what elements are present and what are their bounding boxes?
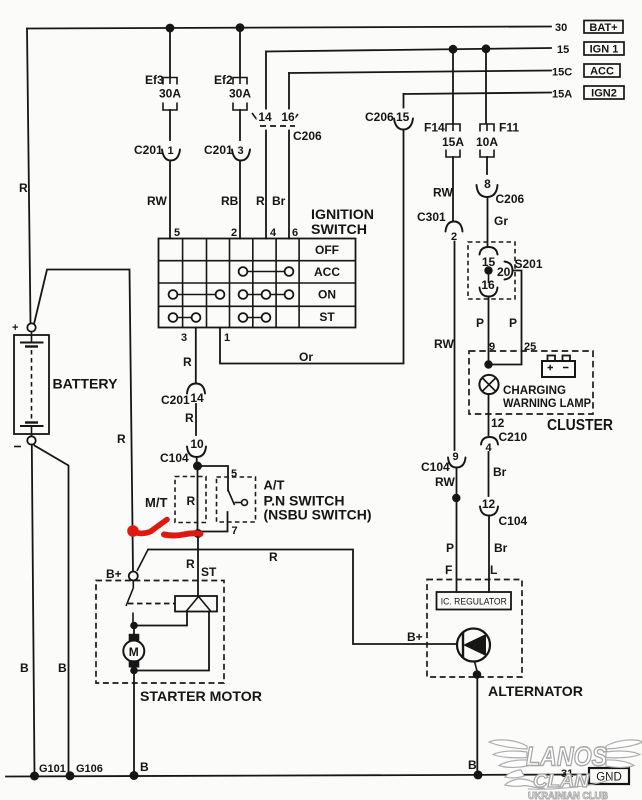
svg-text:G106: G106 bbox=[76, 763, 103, 775]
left wing bbox=[489, 740, 527, 749]
node alternator ground bbox=[474, 770, 483, 779]
wire RW C301 to C104 bbox=[454, 242, 456, 451]
starter contact upper lead bbox=[132, 581, 134, 589]
starter motor dashed box bbox=[96, 581, 224, 684]
svg-text:5: 5 bbox=[174, 227, 180, 239]
svg-text:BATTERY: BATTERY bbox=[53, 376, 119, 392]
svg-text:R: R bbox=[19, 181, 28, 195]
svg-text:15A: 15A bbox=[552, 89, 572, 101]
connector C210 pin 4 bbox=[481, 437, 498, 445]
alternator diode symbol bbox=[457, 629, 490, 662]
motor brush bottom bbox=[129, 660, 140, 667]
svg-text:RB: RB bbox=[221, 194, 239, 208]
wire Ef3 to C201 bbox=[169, 110, 171, 140]
svg-text:Gr: Gr bbox=[494, 214, 508, 228]
wire battery negative to G101 bbox=[32, 445, 35, 776]
solenoid plunger V bbox=[186, 597, 211, 612]
charging warning lamp bbox=[479, 375, 498, 394]
starter contact lower lead bbox=[132, 613, 134, 623]
svg-text:C206: C206 bbox=[496, 192, 525, 206]
node junction NSBU top bbox=[193, 462, 202, 471]
wire Or from IGN2 bus to switch pin 1 bbox=[220, 94, 404, 364]
svg-text:IC. REGULATOR: IC. REGULATOR bbox=[441, 597, 507, 608]
svg-text:2: 2 bbox=[231, 227, 237, 239]
swoosh underline bbox=[528, 779, 612, 789]
svg-text:1: 1 bbox=[167, 145, 173, 157]
svg-text:S201: S201 bbox=[515, 257, 543, 271]
node junction Ef3 feed on 30 bus bbox=[166, 24, 175, 33]
svg-text:ALTERNATOR: ALTERNATOR bbox=[488, 683, 583, 699]
svg-text:B: B bbox=[58, 661, 67, 675]
battery dashed center bbox=[31, 350, 33, 419]
fuse F11 10A bbox=[485, 49, 487, 124]
wire R from IGN1 bus to switch pin 4 bbox=[265, 52, 267, 239]
node junction F14 feed on 15 bus bbox=[449, 45, 458, 54]
node starter motor bottom bbox=[130, 667, 138, 675]
wire RW to ignition switch pin 5 bbox=[169, 161, 171, 239]
mini battery icon bbox=[542, 356, 575, 378]
svg-text:C104: C104 bbox=[160, 451, 189, 465]
motor M bbox=[123, 641, 144, 662]
svg-text:5: 5 bbox=[231, 468, 237, 480]
wire A/T branch to pin 5 bbox=[198, 466, 229, 491]
svg-text:Ef3: Ef3 bbox=[145, 73, 164, 87]
svg-text:L: L bbox=[490, 563, 497, 577]
svg-text:R: R bbox=[187, 494, 196, 508]
wire R pin14 to C104 bbox=[195, 404, 197, 435]
svg-text:30A: 30A bbox=[229, 87, 251, 101]
svg-text:Br: Br bbox=[272, 194, 286, 208]
svg-text:M: M bbox=[129, 645, 139, 659]
wire RW to splice bbox=[456, 468, 458, 495]
svg-text:R: R bbox=[269, 550, 278, 564]
wire R/ST to starter solenoid bbox=[197, 534, 199, 597]
wire solenoid right terminal bbox=[134, 612, 209, 671]
svg-text:7: 7 bbox=[232, 525, 238, 537]
svg-text:R: R bbox=[186, 557, 195, 571]
battery positive terminal bbox=[27, 323, 35, 331]
svg-text:1: 1 bbox=[224, 332, 230, 344]
wire lamp to C210 bbox=[488, 394, 490, 435]
wire Br to regulator L bbox=[488, 516, 490, 593]
svg-text:M/T: M/T bbox=[145, 495, 167, 510]
ON row contacts bbox=[169, 290, 294, 299]
svg-text:R: R bbox=[185, 411, 194, 425]
svg-text:IGN2: IGN2 bbox=[591, 88, 617, 100]
wire diode to ground node bbox=[475, 662, 478, 672]
connector C201 pin 14 bbox=[187, 384, 205, 394]
svg-text:G101: G101 bbox=[39, 763, 66, 775]
svg-text:P: P bbox=[476, 316, 484, 330]
svg-text:ON: ON bbox=[318, 288, 336, 302]
ground G101 bbox=[30, 772, 39, 781]
svg-text:Br: Br bbox=[493, 465, 507, 479]
motor brush top bbox=[129, 634, 140, 641]
svg-text:C104: C104 bbox=[421, 460, 450, 474]
ground G106 bbox=[66, 771, 75, 780]
svg-text:14: 14 bbox=[258, 110, 272, 124]
svg-text:R: R bbox=[183, 355, 192, 369]
svg-text:B: B bbox=[140, 760, 149, 774]
battery bbox=[12, 322, 49, 447]
svg-text:UKRAINIAN CLUB: UKRAINIAN CLUB bbox=[528, 791, 608, 800]
ST row contacts bbox=[169, 313, 271, 322]
svg-text:30A: 30A bbox=[159, 87, 181, 101]
svg-text:6: 6 bbox=[292, 227, 298, 239]
fuse F14 15A bbox=[452, 49, 454, 123]
ground bus bottom bbox=[6, 775, 589, 777]
svg-text:F11: F11 bbox=[499, 121, 519, 135]
svg-text:+: + bbox=[12, 322, 18, 334]
node starter motor top bbox=[130, 622, 138, 630]
svg-text:IGN 1: IGN 1 bbox=[590, 44, 619, 56]
svg-text:P: P bbox=[509, 316, 517, 330]
svg-text:4: 4 bbox=[270, 227, 277, 239]
svg-text:8: 8 bbox=[484, 177, 491, 191]
svg-text:Br: Br bbox=[494, 541, 508, 555]
svg-text:CHARGING: CHARGING bbox=[503, 383, 566, 397]
wire P S201-16 to cluster bbox=[488, 297, 490, 365]
ACC row contacts bbox=[239, 267, 294, 276]
svg-text:CLUSTER: CLUSTER bbox=[547, 417, 613, 434]
mechanical linkage dashed bbox=[128, 603, 175, 605]
wire P S201-20 to cluster 25 bbox=[513, 271, 522, 365]
svg-text:15C: 15C bbox=[552, 67, 572, 79]
wire P to regulator F bbox=[456, 498, 458, 592]
wire B alternator to ground bbox=[476, 675, 478, 776]
svg-text:ACC: ACC bbox=[590, 66, 614, 78]
svg-text:ACC: ACC bbox=[314, 265, 340, 279]
svg-text:C206: C206 bbox=[293, 129, 322, 143]
svg-text:B: B bbox=[20, 661, 29, 675]
svg-text:C210: C210 bbox=[499, 430, 528, 444]
wire Br C210 to C104 bbox=[488, 452, 490, 496]
wire C104-10 to junction bbox=[196, 457, 198, 462]
wire battery feed R (left vertical) bbox=[27, 29, 31, 325]
node splice on RW/P wire bbox=[452, 494, 460, 502]
connector S201 pin 15 bbox=[480, 247, 498, 255]
svg-text:C201: C201 bbox=[161, 393, 190, 407]
node lamp top junction bbox=[489, 364, 522, 366]
node starter ground bbox=[130, 771, 139, 780]
wire 15C bus (ACC) bbox=[289, 71, 551, 74]
svg-text:3: 3 bbox=[181, 332, 187, 344]
wire F11 to C206-8 bbox=[486, 157, 488, 174]
svg-text:C201: C201 bbox=[204, 143, 233, 157]
wire Ef2 to C201 bbox=[239, 110, 241, 140]
solenoid box bbox=[175, 596, 217, 612]
svg-text:WARNING LAMP: WARNING LAMP bbox=[503, 396, 591, 410]
watermark logo Lanos Clan bbox=[489, 740, 642, 789]
splice S201 dashed box bbox=[468, 242, 515, 299]
svg-text:Or: Or bbox=[299, 350, 313, 364]
starter switch blade bbox=[126, 588, 133, 606]
battery negative terminal bbox=[27, 436, 35, 444]
svg-text:Ef2: Ef2 bbox=[214, 73, 233, 87]
switch blade B+ starter bbox=[137, 550, 148, 572]
svg-text:ST: ST bbox=[319, 310, 335, 324]
svg-text:15: 15 bbox=[557, 44, 569, 56]
wire 15A bus (IGN2) bbox=[404, 93, 552, 95]
wire R long run to alternator B+ bbox=[148, 550, 457, 645]
right wing bbox=[606, 740, 642, 749]
svg-text:15: 15 bbox=[396, 110, 410, 124]
node junction NSBU bottom bbox=[194, 529, 203, 538]
battery positive cable bbox=[34, 270, 133, 572]
svg-text:12: 12 bbox=[482, 497, 496, 511]
wire RB to ignition switch pin 2 bbox=[239, 161, 241, 239]
fixed contact NSBU bbox=[235, 502, 242, 504]
alternator dashed box bbox=[427, 580, 522, 678]
wire Gr to S201 bbox=[487, 197, 489, 247]
wire motor to ground bbox=[133, 672, 135, 776]
wire 15 bus (IGN1) bbox=[266, 48, 551, 52]
wire motor top to switch bbox=[133, 626, 135, 635]
IC regulator box bbox=[437, 592, 512, 610]
terminal IGN2 box bbox=[584, 86, 624, 99]
svg-text:C104: C104 bbox=[499, 514, 528, 528]
svg-text:15A: 15A bbox=[442, 135, 464, 149]
svg-text:B+: B+ bbox=[407, 630, 423, 644]
svg-text:14: 14 bbox=[190, 391, 204, 405]
svg-text:10A: 10A bbox=[476, 135, 498, 149]
svg-text:RW: RW bbox=[435, 475, 455, 489]
svg-text:OFF: OFF bbox=[315, 243, 339, 257]
svg-text:RW: RW bbox=[147, 194, 167, 208]
svg-text:3: 3 bbox=[237, 145, 243, 157]
svg-text:R: R bbox=[256, 194, 265, 208]
wire switch pin 3 output bbox=[195, 328, 197, 384]
svg-text:RW: RW bbox=[434, 337, 454, 351]
A/T dashed box bbox=[217, 477, 256, 522]
wire M/T path R bbox=[197, 466, 199, 529]
svg-text:ST: ST bbox=[201, 565, 217, 579]
node junction F11 feed on 15 bus bbox=[482, 44, 491, 53]
svg-text:R: R bbox=[117, 432, 126, 446]
cluster dashed box bbox=[469, 351, 593, 414]
svg-text:16: 16 bbox=[481, 278, 495, 292]
wire battery negative to G106 bbox=[35, 446, 69, 776]
terminal ACC box bbox=[584, 64, 620, 77]
svg-text:16: 16 bbox=[281, 110, 295, 124]
svg-text:C201: C201 bbox=[134, 143, 163, 157]
terminal GND box bbox=[589, 768, 629, 784]
wire solenoid left terminal bbox=[134, 612, 187, 626]
svg-text:C301: C301 bbox=[417, 210, 446, 224]
swoosh feather bbox=[505, 779, 545, 789]
ignition switch table bbox=[159, 239, 356, 328]
fuse Ef3 30A bbox=[169, 28, 171, 77]
svg-text:IGNITION: IGNITION bbox=[311, 206, 374, 222]
svg-text:10: 10 bbox=[190, 437, 204, 451]
svg-text:LANOS: LANOS bbox=[526, 742, 607, 772]
svg-text:12: 12 bbox=[491, 416, 505, 430]
svg-text:B+: B+ bbox=[106, 567, 122, 581]
battery plates bbox=[20, 342, 44, 344]
svg-text:F: F bbox=[445, 563, 452, 577]
svg-text:B: B bbox=[468, 758, 477, 772]
svg-text:CLAN: CLAN bbox=[533, 771, 590, 791]
node alternator output bbox=[473, 670, 482, 679]
switch blade NSBU bbox=[228, 490, 235, 505]
wire A/T branch pin 7 bbox=[198, 512, 228, 532]
svg-text:C206: C206 bbox=[365, 110, 394, 124]
wire Br from ACC bus to switch pin 6 bbox=[288, 73, 290, 239]
svg-text:BAT+: BAT+ bbox=[589, 22, 617, 34]
svg-text:STARTER MOTOR: STARTER MOTOR bbox=[140, 688, 262, 704]
svg-text:(NSBU SWITCH): (NSBU SWITCH) bbox=[264, 507, 372, 523]
svg-text:SWITCH: SWITCH bbox=[311, 221, 367, 237]
svg-text:9: 9 bbox=[452, 451, 458, 463]
svg-text:F14: F14 bbox=[424, 121, 445, 135]
connector C206 pins 14/16 (dashed) bbox=[252, 113, 298, 122]
wire RW F14 to C301 bbox=[452, 157, 454, 221]
svg-text:RW: RW bbox=[433, 186, 453, 200]
svg-text:P: P bbox=[446, 541, 454, 555]
wire 30 bus (top horizontal) bbox=[27, 27, 551, 29]
M/T dashed box bbox=[175, 477, 206, 523]
red annotation stroke M/T bbox=[127, 520, 200, 537]
svg-text:30: 30 bbox=[555, 22, 567, 34]
terminal BAT+ box bbox=[584, 21, 623, 34]
terminal IGN 1 box bbox=[584, 42, 624, 55]
node splice S201 bbox=[488, 267, 490, 284]
svg-text:20: 20 bbox=[497, 265, 511, 279]
svg-text:A/T: A/T bbox=[264, 478, 285, 493]
battery box bbox=[14, 335, 49, 434]
svg-text:GND: GND bbox=[596, 772, 622, 784]
fuse Ef2 30A bbox=[239, 28, 241, 77]
node junction Ef2 feed on 30 bus bbox=[236, 23, 245, 32]
starter B+ terminal bbox=[129, 572, 138, 581]
